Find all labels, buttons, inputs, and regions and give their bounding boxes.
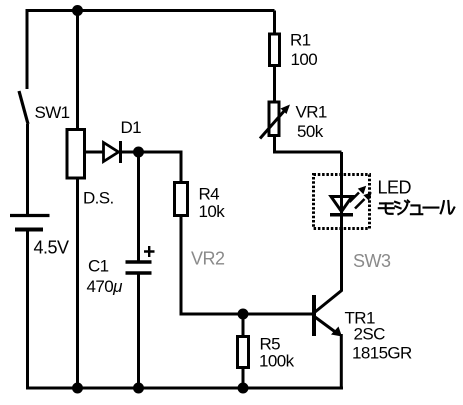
wire node C to R5 [242,314,245,337]
svg-text:100: 100 [291,50,318,69]
node A junction dot [72,5,83,16]
variable resistor VR1 arrow [260,110,285,139]
diode D1 triangle [104,143,119,162]
battery B1 plate short [15,228,43,232]
wire diode to node B [122,151,139,154]
resistor R4 [175,183,188,216]
capacitor C1 plate bottom [126,271,152,275]
wire left vertical lower [26,232,29,390]
transistor TR1 bar [312,295,316,336]
node C junction dot [238,309,249,320]
svg-text:2SC: 2SC [354,325,386,344]
node D junction dot [72,383,83,394]
svg-text:C1: C1 [88,257,109,276]
svg-text:SW3: SW3 [353,251,391,271]
LED D2 cathode bar [330,213,353,217]
node E junction dot [133,383,144,394]
svg-text:10k: 10k [199,202,226,221]
svg-text:470μ: 470μ [87,277,124,296]
node F junction dot [238,383,249,394]
svg-text:D.S.: D.S. [83,189,114,208]
svg-text:1815GR: 1815GR [352,344,412,363]
wire left vertical middle [26,124,29,214]
svg-text:100k: 100k [259,352,295,371]
resistor R1 [270,34,280,66]
node B junction dot [133,147,144,158]
svg-text:50k: 50k [297,122,324,141]
wire capacitor to bottom [137,273,140,388]
wire D.S. to diode [86,151,105,154]
svg-text:VR2: VR2 [191,249,225,269]
wire R1 to VR1 [273,66,276,103]
battery B1 plate long [10,214,50,217]
svg-text:D1: D1 [121,118,142,137]
LED D2 triangle [331,197,352,212]
component D.S. box [67,130,85,179]
LED module dotted box [314,175,370,229]
wire R5 to bottom [242,367,245,388]
label module katakana long bar [424,207,439,209]
label module katakana ji [395,200,409,214]
svg-text:LED: LED [378,178,412,198]
svg-text:R1: R1 [290,31,311,50]
svg-text:R4: R4 [199,185,220,204]
label module katakana ru [441,201,455,214]
resistor R5 [238,337,249,368]
wire top to R1 [273,11,276,35]
transistor TR1 emitter [315,317,336,333]
svg-text:4.5V: 4.5V [34,238,70,258]
wire R4 bottom to base node [181,216,312,315]
capacitor C1 plus sign [144,246,155,257]
switch SW1 lever [19,91,28,124]
wire left vertical upper [26,9,29,89]
svg-text:VR1: VR1 [296,103,327,122]
label module katakana small yu [411,205,422,214]
label module katakana mo [379,203,394,213]
diode D1 cathode bar [119,141,122,163]
wire bottom horizontal [26,387,343,390]
wire VR1 to LED branch [275,136,342,153]
transistor TR1 collector [315,288,342,312]
LED arrow 1 [350,193,360,203]
wire emitter to bottom [340,334,343,390]
wire node B down to capacitor [137,152,140,261]
wire top horizontal [26,9,275,12]
LED arrow 2 [355,199,365,209]
capacitor C1 plate top [126,260,152,264]
wire vertical bus x=77.5 [76,11,79,389]
svg-text:SW1: SW1 [35,103,70,122]
wire down into LED module [340,152,343,291]
variable resistor VR1 body [269,102,279,136]
wire node B to R4 top [139,152,182,182]
